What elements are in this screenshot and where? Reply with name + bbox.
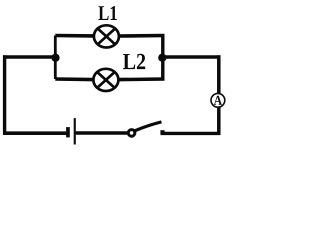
wire: right outer vertical wire lower segment (corner to ammeter) [217, 107, 221, 135]
wire: left outer vertical wire [3, 55, 6, 135]
label L1 [98, 6, 116, 20]
battery: long thin positive plate [74, 118, 76, 144]
wire: right outer vertical wire upper segment (ammeter to top corner) [217, 55, 221, 94]
node: right junction dot [158, 54, 166, 62]
wire: middle horizontal wire from right node to right corner [162, 55, 220, 58]
battery: short thick negative plate [66, 127, 70, 137]
lamp L1 [94, 25, 119, 47]
ammeter A [211, 93, 225, 107]
switch fixed contact tick [160, 130, 164, 133]
lamp L2 [93, 69, 118, 91]
wire: bottom wire from battery to switch pivot [76, 131, 128, 134]
wire: bottom branch left wire to lamp L2 [55, 77, 93, 81]
label L2 [123, 54, 145, 69]
node: left junction dot [51, 54, 59, 62]
wire: right branch vertical wire of parallel section [161, 36, 164, 80]
wire: top branch right wire from lamp L1 [120, 34, 165, 38]
wire: bottom wire from left corner to battery [3, 131, 67, 135]
wire: top branch left wire to lamp L1 [55, 34, 93, 38]
wire: left branch vertical wire of parallel section [54, 36, 57, 80]
wire: bottom branch right wire from lamp L2 [119, 77, 165, 81]
wire: bottom wire from switch contact to right corner [161, 132, 221, 135]
switch pivot circle [128, 130, 135, 137]
wire: left horizontal wire from outer loop to left node [3, 55, 56, 59]
switch lever arm (open) [134, 122, 162, 131]
